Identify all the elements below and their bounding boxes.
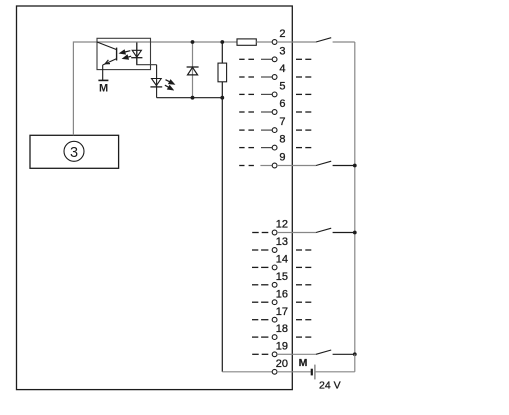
svg-text:M: M bbox=[99, 82, 108, 94]
svg-text:7: 7 bbox=[279, 116, 285, 128]
svg-text:12: 12 bbox=[276, 219, 288, 231]
optocoupler U1 outer box bbox=[97, 38, 151, 69]
resistor R2 branch bbox=[218, 42, 227, 98]
svg-text:24 V: 24 V bbox=[319, 379, 341, 391]
optocoupler U1 inner LED box bbox=[137, 43, 157, 65]
terminal pin 18 bbox=[252, 323, 288, 339]
svg-text:M: M bbox=[299, 357, 308, 369]
terminal pin 15 bbox=[252, 271, 288, 287]
external stub dashes pin 4 bbox=[296, 76, 311, 78]
contact switch on pin 12 bbox=[292, 228, 354, 232]
terminal pin 2 bbox=[272, 28, 292, 44]
wire: internal top net bbox=[97, 41, 237, 43]
terminal pin 19 bbox=[252, 340, 292, 356]
svg-text:19: 19 bbox=[276, 340, 288, 352]
module enclosure box bbox=[17, 6, 293, 390]
svg-text:13: 13 bbox=[276, 236, 288, 248]
terminal pin 5 bbox=[239, 81, 285, 97]
svg-text:4: 4 bbox=[279, 63, 285, 75]
label M (chassis reference) bbox=[299, 357, 308, 369]
terminal pin 6 bbox=[239, 98, 285, 114]
terminal pin 13 bbox=[252, 236, 288, 252]
svg-text:3: 3 bbox=[70, 145, 78, 161]
clamp diode V1 branch wire bbox=[192, 42, 194, 98]
wire: internal bottom net bbox=[157, 97, 223, 99]
terminal pin 12 bbox=[252, 219, 292, 235]
contact switch on pin 2 bbox=[292, 38, 354, 42]
junction dots on nets bbox=[191, 40, 225, 100]
external stub dashes pin 18 bbox=[296, 336, 311, 338]
external stub dashes pin 17 bbox=[296, 319, 311, 321]
wire from block 3 to input net bbox=[73, 42, 97, 135]
bus junction dots bbox=[353, 164, 357, 357]
svg-text:20: 20 bbox=[276, 358, 288, 370]
light coupling arrows bbox=[119, 49, 132, 60]
external stub dashes pin 16 bbox=[296, 301, 311, 303]
battery 24 V supply bbox=[312, 354, 355, 379]
terminal pin 17 bbox=[252, 306, 288, 322]
external stub dashes pin 15 bbox=[296, 284, 311, 286]
optocoupler LED diode bbox=[131, 43, 142, 65]
terminal pin 16 bbox=[252, 288, 288, 304]
svg-text:3: 3 bbox=[279, 45, 285, 57]
external stub dashes pin 6 bbox=[296, 111, 311, 113]
external stub dashes pin 3 bbox=[296, 58, 311, 60]
svg-text:17: 17 bbox=[276, 306, 288, 318]
svg-text:14: 14 bbox=[276, 254, 288, 266]
ground symbol M at emitter bbox=[98, 65, 108, 95]
contact switch on pin 19 bbox=[292, 350, 354, 354]
svg-text:9: 9 bbox=[279, 152, 285, 164]
svg-text:16: 16 bbox=[276, 288, 288, 300]
svg-text:15: 15 bbox=[276, 271, 288, 283]
external stub dashes pin 5 bbox=[296, 93, 311, 95]
terminal pin 14 bbox=[252, 254, 288, 270]
function block box with circled 3 bbox=[30, 135, 119, 168]
phototransistor of U1 bbox=[97, 42, 117, 65]
terminal pin 4 bbox=[239, 63, 285, 79]
svg-text:5: 5 bbox=[279, 81, 285, 93]
external stub dashes pin 7 bbox=[296, 129, 311, 131]
external stub dashes pin 8 bbox=[296, 147, 311, 149]
svg-text:6: 6 bbox=[279, 98, 285, 110]
input resistor R1 bbox=[237, 39, 272, 45]
svg-text:18: 18 bbox=[276, 323, 288, 335]
label 24 V bbox=[319, 379, 341, 391]
wire: bottom net down to pin 20 bbox=[222, 98, 272, 372]
svg-text:2: 2 bbox=[279, 28, 285, 40]
svg-text:8: 8 bbox=[279, 134, 285, 146]
contact switch on pin 9 bbox=[292, 161, 354, 165]
status LED with emission arrows bbox=[150, 65, 175, 98]
external stub dashes pin 14 bbox=[296, 266, 311, 268]
terminal pin 9 bbox=[239, 152, 292, 168]
terminal pin 8 bbox=[239, 134, 285, 150]
external stub dashes pin 13 bbox=[296, 249, 311, 251]
clamp diode V1 bbox=[187, 67, 199, 75]
terminal pin 7 bbox=[239, 116, 285, 132]
terminal pin 20 bbox=[272, 358, 311, 374]
24 V supply bus wire bbox=[354, 42, 356, 354]
terminal pin 3 bbox=[239, 45, 285, 61]
